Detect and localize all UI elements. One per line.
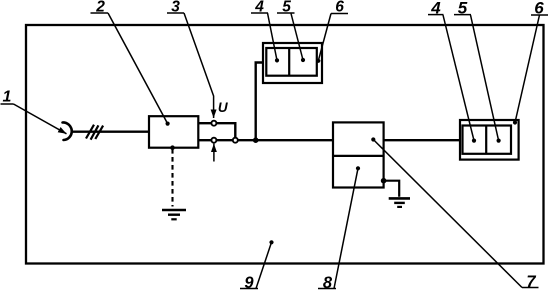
leader 7 — [373, 140, 522, 288]
leader dot 6 (top) — [316, 59, 320, 63]
svg-text:4: 4 — [254, 0, 264, 16]
divider between cells 4 and 5 (top assembly) — [288, 48, 290, 76]
underline 5a — [277, 12, 295, 14]
svg-text:4: 4 — [430, 0, 441, 18]
underline 6a — [331, 13, 348, 15]
underline 4a — [251, 12, 268, 14]
leader 5 (top assembly) — [291, 14, 303, 61]
svg-text:5: 5 — [458, 0, 468, 18]
leader dot 5 (top) — [301, 58, 305, 62]
leader 3 with arrow to U terminals — [184, 13, 214, 118]
divider between sections 7 and 8 — [333, 155, 384, 157]
node: block 7/8 earth junction — [381, 178, 387, 184]
leader 6 (right assembly) — [515, 15, 540, 123]
leader 4 (top assembly) — [268, 13, 278, 60]
capacitor assembly top: inner two-cell box 4/5 — [266, 48, 317, 76]
underline 3 — [167, 12, 184, 14]
wire: earth lead of block 7/8 — [384, 181, 400, 197]
ground symbol under box 2 — [162, 209, 186, 212]
leader dot 4 (right) — [472, 139, 476, 143]
svg-text:7: 7 — [526, 273, 536, 290]
dashed earth lead from box 2 — [171, 149, 173, 207]
svg-text:6: 6 — [335, 0, 344, 16]
capacitor assembly right: inner two-cell box 4/5 — [463, 126, 512, 154]
svg-text:1: 1 — [3, 89, 12, 106]
ground symbol under block 7/8 — [389, 197, 410, 200]
leader 2 — [108, 13, 168, 124]
wire: riser to capacitor assembly (top) — [256, 63, 263, 141]
leader dot 5 (right) — [497, 139, 501, 143]
svg-text:9: 9 — [244, 274, 254, 290]
underline 8 — [318, 288, 336, 290]
converter box 2 — [149, 116, 198, 148]
junction circle on bus — [233, 138, 238, 143]
underline 4b — [428, 14, 444, 16]
leader dot 8 — [356, 166, 360, 170]
terminal circle (lower, U measurement) — [211, 138, 216, 143]
capacitor assembly top: outer shield box 6 — [263, 43, 322, 83]
wire: main bus to block 7/8 — [238, 139, 333, 141]
wire: upper terminal jog down — [216, 123, 235, 138]
svg-text:U: U — [218, 100, 229, 115]
antenna / pickup electrode 1 (arc symbol) — [63, 122, 72, 140]
svg-text:5: 5 — [282, 0, 291, 16]
arrow up to lower U terminal — [213, 144, 215, 162]
wire: box 2 upper output stub — [198, 122, 211, 124]
leader 5 (right assembly) — [471, 15, 499, 141]
underline 5b — [454, 14, 471, 16]
wire: box 2 lower output stub — [198, 139, 211, 141]
leader dot 2 — [166, 122, 170, 126]
wire: block 7/8 to right capacitor assembly — [384, 139, 460, 141]
divider between cells 4 and 5 (right assembly) — [485, 126, 487, 154]
underline 6b — [531, 14, 548, 16]
leader dot 9 — [269, 240, 273, 244]
slash marks on antenna lead (x3) — [86, 125, 103, 140]
leader 1 with arrow to antenna — [14, 104, 67, 134]
underline 2 — [91, 12, 109, 14]
wire: antenna to converter 2 — [71, 130, 148, 132]
leader 9 — [256, 242, 272, 288]
leader dot 6 (right) — [513, 120, 517, 124]
leader 6 (top assembly) — [318, 14, 331, 61]
svg-text:8: 8 — [323, 274, 333, 290]
terminal circle (upper, U measurement) — [211, 121, 216, 126]
svg-text:3: 3 — [171, 0, 180, 16]
wire: lower terminal to junction circle — [216, 139, 233, 141]
node: bus/riser junction — [253, 137, 259, 143]
svg-text:6: 6 — [534, 0, 544, 18]
leader dot 7 — [371, 137, 375, 141]
underline 9 — [240, 288, 258, 290]
svg-text:2: 2 — [95, 0, 105, 16]
leader dot 4 (top) — [275, 58, 279, 62]
capacitor assembly right: outer shield box 6 — [460, 120, 519, 160]
enclosure 9 (shielded chamber outline) — [26, 25, 544, 264]
leader 4 (right assembly) — [443, 15, 474, 141]
leader 8 — [334, 168, 358, 288]
measuring block 7/8 — [333, 122, 384, 187]
underline 1 — [1, 103, 14, 105]
node: box 2 earth junction — [170, 145, 175, 150]
underline 7 — [522, 287, 539, 289]
